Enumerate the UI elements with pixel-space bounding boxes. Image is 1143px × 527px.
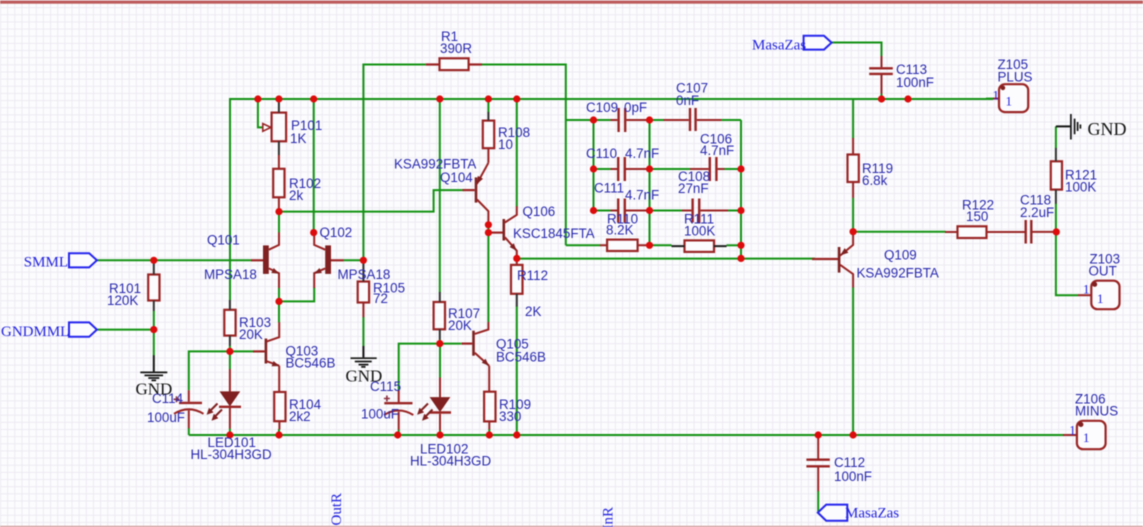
svg-text:20K: 20K [448,318,472,333]
resistor R121 [1051,148,1062,204]
node Q106 base [485,229,492,236]
resistor R122 [945,226,1025,238]
wire rail to R108 x=488.4 [487,99,489,113]
node Q104 collector [485,221,492,228]
svg-text:BC546B: BC546B [496,350,546,365]
resistor R101 [148,263,159,311]
node rail2-R112 [513,431,520,438]
node rail-Q102 collector column [310,95,317,102]
ground GND3 rotated [1056,114,1081,140]
node rail2-LED101 [226,431,233,438]
svg-text:6.8k: 6.8k [862,173,888,188]
node row3-col1 [590,207,597,214]
node rail2-C115 [394,431,401,438]
wire R101 bottom to node [153,311,155,330]
wire Q101 emitter to tail node [278,288,280,302]
node Q102 collector [310,229,317,236]
capacitor C107 [664,108,722,131]
svg-text:2K: 2K [525,304,541,319]
wire MasaZas to C113 [832,43,882,57]
wire +rail top y=99 [230,98,993,100]
node rail-P101 wiper [254,95,261,102]
svg-text:72: 72 [373,291,388,306]
svg-text:120K: 120K [107,293,138,308]
wire rail to Q106 collector x=516.8 [516,99,518,207]
capacitor C115 polarized [384,390,413,430]
wire C112 bottom to MasaZas [817,491,819,512]
svg-text:1K: 1K [290,131,306,146]
net flag SMML [69,253,97,267]
wire LED101 anode feed [229,351,231,369]
svg-text:OUT: OUT [1089,264,1117,279]
wire R109 bottom to rail [488,429,490,435]
svg-text:8.2K: 8.2K [606,223,634,238]
transistor Q101 [251,232,279,288]
wire Q106 emitter node to Q109 base [517,258,815,260]
wire R104 bottom to rail [278,429,280,435]
wire Q109 collector to rail [852,287,854,435]
svg-text:4.7nF: 4.7nF [625,188,659,203]
node row2-col2 [646,165,653,172]
node rail-P101 top [275,95,282,102]
wire node A to Q104 base [279,190,463,212]
svg-text:390R: 390R [440,41,472,56]
svg-text:100nF: 100nF [896,75,934,90]
node rail-Q106 column [513,95,520,102]
wire R105 bottom to GND2 [362,317,364,346]
svg-text:PLUS: PLUS [998,70,1033,85]
node row4-col2 [646,242,653,249]
port Z106 [1063,421,1106,449]
svg-text:MPSA18: MPSA18 [204,267,257,282]
wire Z105 stub [986,98,994,100]
resistor R109 [484,366,495,430]
svg-text:1: 1 [1097,291,1104,306]
resistor R104 [274,366,285,430]
svg-text:100uF: 100uF [361,407,399,422]
svg-text:R112: R112 [517,268,548,283]
svg-text:Q106: Q106 [523,204,556,219]
svg-text:1: 1 [1083,282,1090,297]
net flag MasaZas bottom [818,505,848,521]
potentiometer P101 [263,101,286,156]
wire cap column x=593.5 [593,120,595,211]
node rail-C113 [878,95,885,102]
svg-text:4.7nF: 4.7nF [625,146,659,161]
svg-text:1: 1 [1006,94,1013,109]
wire LED102 anode feed [439,344,441,378]
svg-text:GND: GND [1088,119,1127,139]
transistor Q109 [812,234,853,288]
node GNDMML-R101 [150,326,157,333]
LED LED101 [207,369,241,429]
capacitor C114 polarized [174,390,204,428]
frame border bottom [0,526,1143,527]
node rail2-R109 [486,431,493,438]
node rail-R108 [485,95,492,102]
wire rail to R107 x=439.8 [439,99,441,293]
resistor R105 [358,263,369,318]
transistor Q105 [462,322,490,366]
wire node B left to C114 [189,351,230,390]
svg-text:Q104: Q104 [440,170,473,185]
svg-text:0nF: 0nF [676,93,699,108]
node rail-R107 [436,95,443,102]
svg-text:KSA992FBTA: KSA992FBTA [857,266,939,281]
svg-text:330: 330 [499,409,521,424]
wire rail to R103 column x=230 [229,98,231,300]
wire cap column x=649.5 [649,120,651,245]
svg-text:MasaZas: MasaZas [845,506,899,522]
capacitor C112 [806,436,829,491]
wire row1 segments [594,119,612,121]
capacitor C111 [611,199,647,223]
wire R121 bottom to Z103 [1056,204,1078,296]
LED LED102 [417,378,451,431]
capacitor C113 [869,56,893,94]
transistor Q103 [253,322,280,366]
svg-text:BC546B: BC546B [286,356,336,371]
svg-text:0pF: 0pF [624,100,647,115]
svg-text:C111: C111 [594,181,624,196]
wire R1 right to feedback column x=565.8 [482,65,566,246]
resistor R1 [426,58,482,70]
wire bottom rail y=435 [189,434,1064,436]
resistor R112 [511,258,523,306]
resistor R103 [224,300,235,346]
wire C113 to rail [881,93,883,99]
svg-text:HL-304H3GD: HL-304H3GD [191,447,272,462]
transistor Q106 [488,206,516,258]
wire Q102 base stub [343,259,363,261]
node row3-col2 [646,207,653,214]
transistor Q102 [314,233,344,288]
transistor Q104 [463,163,489,225]
resistor R111 [672,240,727,252]
node row3-col3 [737,207,744,214]
svg-text:100nF: 100nF [834,469,872,484]
wire R107 bottom to node C [439,340,441,344]
svg-text:27nF: 27nF [678,181,709,196]
net flag GNDMML [69,322,97,336]
ground GND2 [351,346,377,367]
node rail2-C112 [815,431,822,438]
wire cap column right x=741 [740,120,742,258]
svg-text:C110: C110 [586,146,617,161]
node emitter tail [275,298,282,305]
wire R112 bottom to rail [516,306,518,435]
node B R103 bottom [226,348,233,355]
capacitor C109 [611,108,647,132]
wire LED102 cathode to rail [439,430,441,435]
port Z105 [993,84,1028,112]
capacitor C110 [611,157,647,181]
node rail2-R104 [275,431,282,438]
wire row3 right [728,210,741,212]
svg-text:Q101: Q101 [207,233,240,248]
resistor R102 [273,155,284,212]
svg-text:1: 1 [1069,423,1076,438]
node SMML-R101 [150,257,157,264]
svg-text:C109: C109 [586,100,618,115]
wire rail to R119 [852,99,854,139]
node rail right [904,95,911,102]
resistor R110 [600,240,647,251]
svg-text:GND: GND [346,367,383,386]
node C118-R121 [1053,228,1060,235]
svg-text:GNDMML: GNDMML [1,324,69,340]
svg-text:4.7nF: 4.7nF [700,143,734,158]
svg-text:C112: C112 [834,455,865,470]
node row2-col1 [590,165,597,172]
wire node A to Q101 collector [278,212,280,233]
wire row1 left stub [566,119,594,121]
wire tail node to Q102 emitter [279,288,314,302]
svg-text:100K: 100K [684,224,715,239]
wire LED101 cathode to rail [229,429,231,436]
node feedback right column bottom [737,255,744,262]
wire rail to Q102 collector x=313.7 [313,99,315,233]
svg-text:100uF: 100uF [147,410,185,425]
svg-text:HL-304H3GD: HL-304H3GD [410,454,491,469]
svg-text:1: 1 [1083,430,1090,445]
wire row4 segments [566,244,601,246]
svg-text:GND: GND [136,380,173,399]
wire GNDMML to R101 node [97,329,154,331]
wire SMML to Q101 base [97,259,251,261]
wire node C right to Q105 base [440,343,462,345]
svg-text:2.2uF: 2.2uF [1020,205,1054,220]
node Q102 base-R105 [360,257,367,264]
wire row2 segments [594,168,611,170]
resistor R119 [848,138,859,198]
capacitor C118 [1026,220,1057,244]
node rail2-Q109 [850,431,857,438]
svg-text:MINUS: MINUS [1075,404,1118,419]
wire R1 left to Q102 base column x=363.4 [363,65,425,261]
svg-text:20K: 20K [239,327,263,342]
svg-text:MPSA18: MPSA18 [338,267,391,282]
svg-text:2k2: 2k2 [289,409,311,424]
svg-text:Q102: Q102 [320,225,353,240]
wire node C left to C115 [399,344,440,390]
svg-text:SMML: SMML [24,255,68,271]
svg-text:KSA992FBTA: KSA992FBTA [394,157,476,172]
wire row3 segments [594,210,611,212]
wire C115 bottom to rail [398,430,400,436]
resistor R107 [434,292,445,340]
node C R107 bottom [436,340,443,347]
svg-text:Q109: Q109 [884,248,917,263]
wire node D to R122 [853,231,945,233]
capacitor C108 [682,199,728,223]
wire P101 wiper feed x=257.9 [258,99,263,127]
wire GND3 to R121 [1055,126,1057,148]
resistor R108 [483,112,494,163]
node row1-col1 [590,116,597,123]
svg-text:1: 1 [993,88,1000,103]
wire Q104 collector to Q105 collector column [487,225,489,233]
net flag MasaZas top [804,36,832,50]
frame border top [0,1,1143,4]
node R119 bottom [850,228,857,235]
node row4-col3 [737,242,744,249]
node row2-col3 [737,165,744,172]
svg-text:100K: 100K [1065,180,1096,195]
wire R103 bottom to node B [229,346,231,352]
node A R102 bottom [275,208,282,215]
wire C114 bottom corner [188,428,190,435]
svg-text:OutR: OutR [329,493,345,526]
svg-text:InR: InR [601,507,617,527]
svg-text:2k: 2k [289,188,303,203]
svg-text:MasaZas: MasaZas [752,38,806,54]
svg-text:10: 10 [498,137,513,152]
wire R119 bottom to node D [852,198,854,232]
node Q106 emitter [513,255,520,262]
node rail2-LED102 [436,431,443,438]
wire tail node to Q103 collector [278,301,280,322]
wire node to GND1 [153,330,155,356]
svg-text:KSC1845FTA: KSC1845FTA [513,226,595,241]
ground GND1 [140,355,167,380]
port Z103 [1078,281,1120,310]
wire node B right to Q103 base [230,350,253,352]
node row1-col2 [646,116,653,123]
svg-text:150: 150 [966,209,988,224]
capacitor C106 [690,157,725,181]
